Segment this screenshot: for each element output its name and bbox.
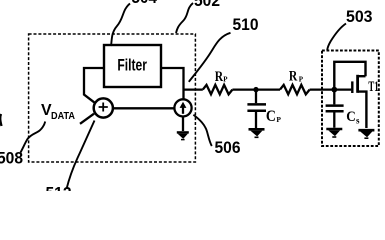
leader 506	[193, 115, 211, 146]
resistor RP2 zigzag	[280, 85, 310, 94]
wire: filter left feedback to summer	[84, 68, 104, 103]
wire: current source to ground	[182, 117, 184, 132]
leader 512	[67, 121, 95, 190]
capacitor CS	[333, 90, 335, 105]
ground (T1 source)	[358, 130, 374, 138]
leader 510	[189, 33, 231, 82]
wire: node to gate	[334, 88, 351, 90]
svg-text:C: C	[346, 109, 356, 125]
svg-text:T1: T1	[368, 79, 378, 95]
right dashed box 503	[322, 51, 379, 147]
leader 502	[176, 3, 193, 33]
node: gate junction dot	[331, 87, 337, 93]
svg-text:510: 510	[233, 16, 259, 34]
svg-text:Filter: Filter	[117, 57, 147, 75]
svg-text:C: C	[266, 108, 276, 125]
svg-text:508: 508	[0, 150, 23, 168]
leader 504	[111, 4, 130, 47]
svg-text:P: P	[299, 76, 304, 84]
wire: RP2 into right box	[310, 88, 335, 90]
svg-text:P: P	[223, 75, 228, 83]
wire: summer output to current source	[113, 107, 174, 109]
ground (CP)	[249, 129, 265, 137]
wire: RP1 to RP2	[232, 88, 280, 90]
current source arrow	[182, 105, 184, 114]
wire: node up and over to drain	[334, 62, 365, 90]
svg-text:503: 503	[346, 8, 373, 26]
svg-text:R: R	[215, 69, 224, 85]
summing node U-sum circle	[94, 98, 113, 117]
ground (CS)	[326, 129, 342, 137]
svg-text:506: 506	[215, 139, 241, 157]
svg-text:P: P	[276, 115, 281, 124]
left dashed box (driver block 502/508)	[29, 34, 196, 162]
leader 503	[327, 24, 346, 51]
capacitor CP	[255, 90, 257, 104]
svg-text:s: s	[356, 115, 360, 125]
current source I1 circle	[174, 99, 191, 116]
wire: filter right to current source top	[161, 68, 184, 99]
node: CP tap junction dot	[253, 87, 258, 92]
filter block U-Filter	[104, 45, 161, 87]
svg-text:502: 502	[194, 0, 220, 10]
svg-text:DATA: DATA	[51, 110, 75, 122]
ground (current source)	[177, 132, 189, 139]
resistor RP1 zigzag	[203, 85, 233, 94]
svg-text:R: R	[289, 69, 298, 85]
leader 508	[21, 122, 46, 153]
transistor T1	[351, 81, 353, 93]
edge mark at left border	[0, 114, 1, 126]
wire: branch to first resistor	[184, 88, 203, 90]
plus sign	[99, 103, 108, 112]
svg-text:504: 504	[132, 0, 158, 7]
wire: V_DATA input lead	[80, 114, 94, 124]
